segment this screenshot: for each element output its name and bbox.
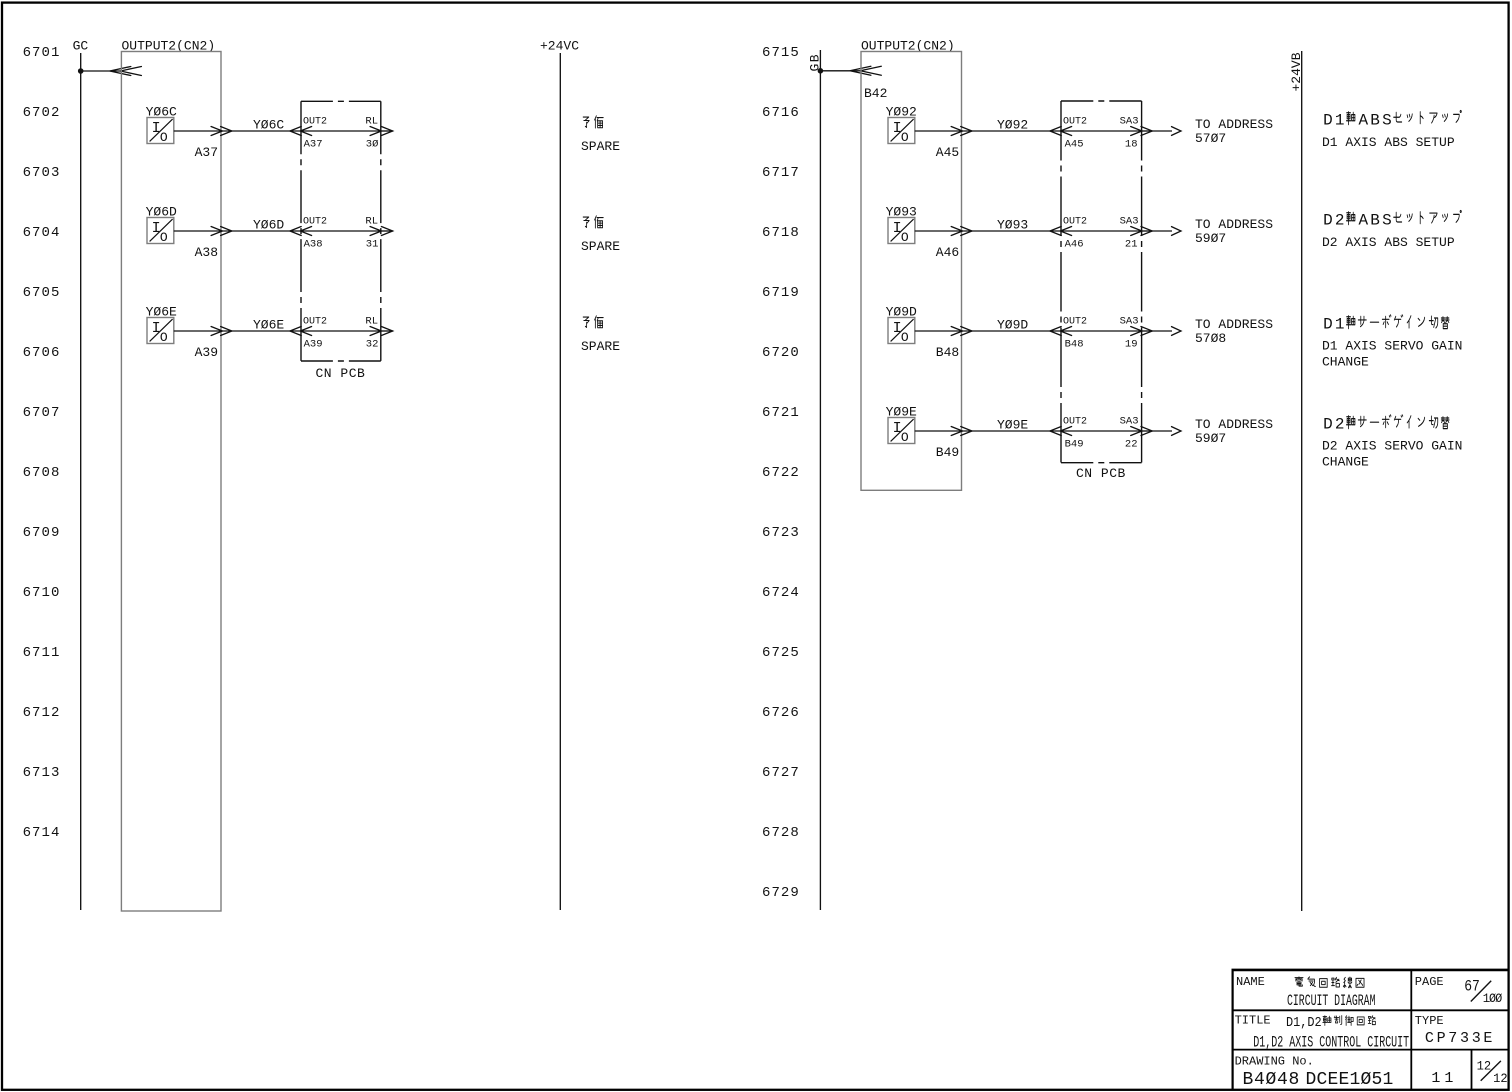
svg-text:A45: A45: [1065, 139, 1084, 151]
svg-text:59Ø7: 59Ø7: [1195, 231, 1226, 246]
svg-text:A46: A46: [1065, 239, 1084, 251]
pin SA3 / 18: [1120, 116, 1139, 151]
wire to address arrow 59Ø7: [1152, 230, 1172, 232]
svg-text:YØ6C: YØ6C: [253, 118, 284, 133]
svg-text:6711: 6711: [23, 645, 61, 661]
svg-text:19: 19: [1125, 339, 1138, 351]
function description (English): [1322, 339, 1462, 370]
arrow double chevron into CN PCB right: [1050, 127, 1072, 136]
svg-text:CN PCB: CN PCB: [316, 366, 366, 381]
title block frame: [1232, 970, 1510, 1090]
svg-text:A: A: [1358, 211, 1368, 229]
svg-text:6728: 6728: [762, 825, 800, 841]
note TO ADDRESS 59Ø7: [1195, 217, 1273, 246]
svg-text:57Ø8: 57Ø8: [1195, 331, 1226, 346]
arrow double chevron out of CN PCB right: [1131, 127, 1153, 136]
title D1,D2 AXIS CONTROL CIRCUIT: [1253, 1034, 1409, 1052]
svg-text:D2 AXIS ABS SETUP: D2 AXIS ABS SETUP: [1322, 235, 1455, 250]
svg-text:59Ø7: 59Ø7: [1195, 431, 1226, 446]
svg-text:D1,D2: D1,D2: [1286, 1014, 1322, 1030]
svg-text:A45: A45: [936, 145, 959, 160]
svg-text:6712: 6712: [23, 705, 61, 721]
svg-text:A: A: [1358, 111, 1368, 129]
svg-text:YØ6E: YØ6E: [253, 318, 284, 333]
svg-text:DRAWING No.: DRAWING No.: [1235, 1055, 1314, 1069]
wire YØ92 from module to CN PCB: [915, 130, 1061, 132]
net label +24VB (vertical): [1289, 52, 1304, 91]
svg-text:YØ6C: YØ6C: [146, 105, 177, 120]
pin OUT2 / A37: [303, 117, 327, 151]
svg-text:D2 AXIS SERVO GAIN: D2 AXIS SERVO GAIN: [1322, 439, 1462, 454]
note TO ADDRESS 57Ø7: [1195, 117, 1273, 146]
wire GB to OUTPUT2(CN2) right: [820, 70, 861, 72]
svg-text:6706: 6706: [23, 345, 61, 361]
svg-text:B: B: [1370, 211, 1380, 229]
svg-text:B42: B42: [864, 86, 887, 101]
svg-text:B48: B48: [1065, 339, 1084, 351]
I/O output module YØ6E: [147, 318, 174, 346]
svg-text:6724: 6724: [762, 585, 800, 601]
svg-text:YØ93: YØ93: [886, 205, 917, 220]
svg-text:SPARE: SPARE: [581, 139, 620, 154]
svg-text:A38: A38: [304, 239, 323, 251]
svg-text:D1 AXIS SERVO GAIN: D1 AXIS SERVO GAIN: [1322, 339, 1462, 354]
wire YØ6C from module to CN PCB: [174, 130, 301, 132]
arrow double chevron out of CN PCB: [370, 127, 393, 136]
svg-text:TO ADDRESS: TO ADDRESS: [1195, 417, 1273, 432]
net +24VC rail: [559, 53, 561, 910]
svg-text:1: 1: [1335, 111, 1345, 129]
svg-text:YØ9D: YØ9D: [997, 318, 1028, 333]
svg-text:YØ9E: YØ9E: [997, 418, 1028, 433]
I/O output module YØ9E: [888, 418, 915, 446]
svg-text:D1 AXIS ABS SETUP: D1 AXIS ABS SETUP: [1322, 135, 1455, 150]
svg-text:6713: 6713: [23, 765, 61, 781]
svg-text:O: O: [160, 230, 168, 245]
svg-text:CN PCB: CN PCB: [1076, 466, 1126, 481]
svg-text:6717: 6717: [762, 165, 800, 181]
pin RL / 3Ø: [365, 116, 378, 151]
function description (English): [1322, 439, 1462, 470]
arrow double chevron out of CN PCB right: [1131, 327, 1153, 336]
arrow double chevron out of CN PCB right: [1131, 427, 1153, 436]
arrow double chevron out of OUTPUT2 right: [951, 127, 972, 136]
arrow double chevron out of OUTPUT2: [211, 127, 232, 136]
svg-text:6727: 6727: [762, 765, 800, 781]
page number 67/100: [1464, 978, 1480, 995]
svg-text:6726: 6726: [762, 705, 800, 721]
svg-text:YØ9E: YØ9E: [886, 405, 917, 420]
svg-text:TO ADDRESS: TO ADDRESS: [1195, 217, 1273, 232]
svg-text:6708: 6708: [23, 465, 61, 481]
wire inside CN PCB row YØ93: [1061, 230, 1142, 232]
svg-text:TO ADDRESS: TO ADDRESS: [1195, 117, 1273, 132]
I/O output module YØ92: [888, 118, 915, 146]
svg-text:YØ9D: YØ9D: [886, 305, 917, 320]
svg-text:D: D: [1323, 315, 1333, 333]
arrow double chevron into OUTPUT2(CN2) left: [110, 67, 142, 76]
arrow double chevron out of OUTPUT2 right: [951, 427, 972, 436]
wire to address arrow 59Ø7: [1152, 430, 1172, 432]
svg-text:YØ92: YØ92: [886, 105, 917, 120]
pin SA3 / 19: [1120, 316, 1139, 351]
svg-text:2: 2: [1335, 211, 1345, 229]
note TO ADDRESS 57Ø8: [1195, 317, 1273, 346]
svg-text:OUT2: OUT2: [303, 317, 327, 328]
arrow double chevron into CN PCB right: [1050, 327, 1072, 336]
function description (Japanese): [1323, 211, 1461, 230]
svg-text:21: 21: [1125, 239, 1138, 251]
spare note 予備: [583, 116, 603, 128]
arrow double chevron out of CN PCB right: [1131, 227, 1153, 236]
arrow double chevron into CN PCB: [290, 327, 312, 336]
net label GB (vertical): [808, 53, 823, 72]
svg-text:D: D: [1323, 415, 1333, 433]
pin SA3 / 21: [1120, 216, 1139, 251]
svg-text:A39: A39: [304, 339, 323, 351]
net GC rail: [80, 53, 82, 910]
svg-text:O: O: [160, 330, 168, 345]
svg-text:32: 32: [366, 339, 379, 351]
net GB rail: [819, 50, 821, 910]
svg-text:6714: 6714: [23, 825, 61, 841]
pin SA3 / 22: [1120, 416, 1139, 451]
svg-text:6718: 6718: [762, 225, 800, 241]
svg-text:O: O: [901, 430, 909, 445]
pin RL / 31: [365, 216, 378, 251]
svg-text:S: S: [1382, 211, 1392, 229]
svg-text:B48: B48: [936, 345, 959, 360]
title CIRCUIT DIAGRAM: [1287, 992, 1375, 1010]
svg-text:6723: 6723: [762, 525, 800, 541]
wire to address arrow 57Ø8: [1152, 330, 1172, 332]
svg-text:6709: 6709: [23, 525, 61, 541]
function description (Japanese): [1323, 415, 1449, 433]
drawing number B4048DCEE1051: [1243, 1070, 1394, 1090]
pin OUT2 / B49: [1063, 417, 1087, 451]
I/O output module YØ6C: [147, 118, 174, 146]
svg-text:1ØØ: 1ØØ: [1483, 992, 1503, 1007]
svg-text:6703: 6703: [23, 165, 61, 181]
arrow double chevron into CN PCB: [290, 127, 312, 136]
junction dot on GC: [78, 68, 84, 74]
svg-text:YØ93: YØ93: [997, 218, 1028, 233]
svg-text:6722: 6722: [762, 465, 800, 481]
pin OUT2 / A38: [303, 217, 327, 251]
svg-text:22: 22: [1125, 439, 1138, 451]
svg-text:OUT2: OUT2: [303, 217, 327, 228]
svg-text:6725: 6725: [762, 645, 800, 661]
svg-text:CHANGE: CHANGE: [1322, 454, 1369, 469]
pin OUT2 / A45: [1063, 117, 1087, 151]
pin RL / 32: [365, 316, 378, 351]
pin OUT2 / A46: [1063, 217, 1087, 251]
connector CN PCB dash-dot box (right): [1061, 100, 1142, 102]
svg-text:B49: B49: [1065, 439, 1084, 451]
svg-text:NAME: NAME: [1236, 975, 1265, 989]
arrow double chevron into CN PCB: [290, 227, 312, 236]
svg-text:6704: 6704: [23, 225, 61, 241]
arrow double chevron into OUTPUT2(CN2) right: [850, 66, 881, 75]
svg-text:O: O: [901, 130, 909, 145]
sheet 12/12: [1477, 1059, 1508, 1086]
arrow single chevron to address: [1172, 327, 1182, 336]
svg-text:3Ø: 3Ø: [366, 139, 379, 151]
svg-text:B4Ø48: B4Ø48: [1243, 1070, 1301, 1090]
svg-text:SA3: SA3: [1120, 216, 1139, 228]
svg-text:18: 18: [1125, 139, 1138, 151]
arrow double chevron out of OUTPUT2 right: [951, 227, 972, 236]
svg-text:SA3: SA3: [1120, 316, 1139, 328]
svg-text:SA3: SA3: [1120, 416, 1139, 428]
svg-text:A38: A38: [195, 245, 218, 260]
wire YØ9D from module to CN PCB: [915, 330, 1061, 332]
net +24VB rail: [1301, 51, 1303, 911]
title D1,D2軸制御回路: [1286, 1014, 1375, 1030]
line number column 6701-6714: [23, 45, 61, 841]
arrow double chevron out of CN PCB: [370, 227, 393, 236]
svg-text:6721: 6721: [762, 405, 800, 421]
svg-text:11: 11: [1431, 1070, 1457, 1087]
arrow double chevron out of OUTPUT2: [211, 327, 232, 336]
svg-text:6716: 6716: [762, 105, 800, 121]
svg-text:CHANGE: CHANGE: [1322, 354, 1369, 369]
svg-text:TYPE: TYPE: [1415, 1014, 1444, 1028]
svg-text:RL: RL: [365, 216, 378, 228]
connector box OUTPUT2(CN2) left: [121, 52, 221, 912]
svg-text:TO ADDRESS: TO ADDRESS: [1195, 317, 1273, 332]
I/O output module YØ93: [888, 218, 915, 246]
svg-text:6710: 6710: [23, 585, 61, 601]
svg-text:OUT2: OUT2: [1063, 117, 1087, 128]
line number column 6715-6729: [762, 45, 800, 901]
wire YØ6E from module to CN PCB: [174, 330, 301, 332]
svg-text:12: 12: [1493, 1072, 1508, 1086]
function description (Japanese): [1323, 111, 1461, 130]
svg-text:O: O: [901, 330, 909, 345]
svg-text:D: D: [1323, 111, 1333, 129]
note TO ADDRESS 59Ø7: [1195, 417, 1273, 446]
svg-text:OUT2: OUT2: [1063, 217, 1087, 228]
svg-text:A37: A37: [195, 145, 218, 160]
svg-text:SPARE: SPARE: [581, 239, 620, 254]
svg-text:YØ6D: YØ6D: [146, 205, 177, 220]
svg-text:TITLE: TITLE: [1235, 1014, 1271, 1028]
svg-text:YØ6D: YØ6D: [253, 218, 284, 233]
svg-text:57Ø7: 57Ø7: [1195, 131, 1226, 146]
svg-text:6707: 6707: [23, 405, 61, 421]
svg-text:B: B: [1370, 111, 1380, 129]
svg-text:S: S: [1382, 111, 1392, 129]
svg-text:YØ92: YØ92: [997, 118, 1028, 133]
svg-text:A46: A46: [936, 245, 959, 260]
svg-text:SPARE: SPARE: [581, 339, 620, 354]
arrow double chevron into CN PCB right: [1050, 427, 1072, 436]
arrow double chevron out of OUTPUT2 right: [951, 327, 972, 336]
wire inside CN PCB row YØ9E: [1061, 430, 1142, 432]
arrow single chevron to address: [1172, 127, 1182, 136]
junction dot on GB: [818, 68, 824, 74]
wire YØ93 from module to CN PCB: [915, 230, 1061, 232]
arrow double chevron into CN PCB right: [1050, 227, 1072, 236]
svg-text:1: 1: [1335, 315, 1345, 333]
wire YØ6D from module to CN PCB: [174, 230, 301, 232]
title 電気回路線図: [1295, 977, 1364, 988]
arrow double chevron out of OUTPUT2: [211, 227, 232, 236]
svg-text:OUT2: OUT2: [1063, 317, 1087, 328]
svg-text:OUT2: OUT2: [303, 117, 327, 128]
svg-text:DCEE1Ø51: DCEE1Ø51: [1306, 1070, 1394, 1090]
wire inside CN PCB row YØ92: [1061, 130, 1142, 132]
wire YØ9E from module to CN PCB: [915, 430, 1061, 432]
svg-text:PAGE: PAGE: [1415, 975, 1444, 989]
svg-text:RL: RL: [365, 316, 378, 328]
spare note 予備: [583, 316, 603, 328]
arrow single chevron to address: [1172, 427, 1182, 436]
svg-text:D1,D2 AXIS CONTROL CIRCUIT: D1,D2 AXIS CONTROL CIRCUIT: [1253, 1034, 1409, 1052]
svg-text:31: 31: [366, 239, 379, 251]
pin OUT2 / B48: [1063, 317, 1087, 351]
wire GC to OUTPUT2(CN2): [81, 70, 122, 72]
wire inside CN PCB row YØ6E: [301, 330, 381, 332]
svg-text:+24VC: +24VC: [540, 39, 579, 54]
svg-text:6729: 6729: [762, 885, 800, 901]
svg-text:67: 67: [1464, 978, 1480, 995]
connector CN PCB dash-dot box (left): [301, 100, 381, 102]
connector box OUTPUT2(CN2) right: [861, 52, 962, 491]
svg-text:D: D: [1323, 211, 1333, 229]
svg-text:2: 2: [1335, 415, 1345, 433]
svg-text:6719: 6719: [762, 285, 800, 301]
arrow single chevron to address: [1172, 227, 1182, 236]
svg-text:6720: 6720: [762, 345, 800, 361]
svg-text:6702: 6702: [23, 105, 61, 121]
svg-text:6701: 6701: [23, 45, 61, 61]
svg-text:CIRCUIT DIAGRAM: CIRCUIT DIAGRAM: [1287, 992, 1375, 1010]
wire inside CN PCB row YØ6C: [301, 130, 381, 132]
spare note 予備: [583, 216, 603, 228]
svg-text:A37: A37: [304, 139, 323, 151]
svg-text:B49: B49: [936, 445, 959, 460]
I/O output module YØ6D: [147, 218, 174, 246]
svg-text:6705: 6705: [23, 285, 61, 301]
svg-text:O: O: [901, 230, 909, 245]
svg-text:GC: GC: [73, 39, 89, 54]
svg-text:OUT2: OUT2: [1063, 417, 1087, 428]
svg-text:CP733E: CP733E: [1425, 1030, 1495, 1047]
arrow double chevron out of CN PCB: [370, 327, 393, 336]
svg-text:RL: RL: [365, 116, 378, 128]
function description (Japanese): [1323, 315, 1449, 333]
I/O output module YØ9D: [888, 318, 915, 346]
svg-text:SA3: SA3: [1120, 116, 1139, 128]
pin OUT2 / A39: [303, 317, 327, 351]
wire to address arrow 57Ø7: [1152, 130, 1172, 132]
svg-text:6715: 6715: [762, 45, 800, 61]
svg-text:O: O: [160, 130, 168, 145]
svg-text:A39: A39: [195, 345, 218, 360]
svg-text:YØ6E: YØ6E: [146, 305, 177, 320]
wire inside CN PCB row YØ6D: [301, 230, 381, 232]
wire inside CN PCB row YØ9D: [1061, 330, 1142, 332]
